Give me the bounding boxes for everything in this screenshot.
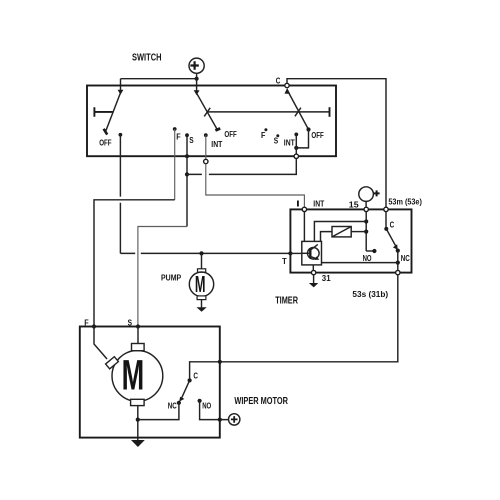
wire emitter to NC junction <box>322 262 398 264</box>
wire NC down to 53s <box>397 251 399 271</box>
relay coil K1 <box>332 227 351 237</box>
node INT3 junction <box>294 146 298 150</box>
node 15 branch coil <box>364 230 368 234</box>
svg-text:M: M <box>195 271 206 297</box>
wire INT2 down to connector <box>205 135 207 159</box>
switch S1 bank3 pivot arrow <box>285 88 291 94</box>
node pump junction <box>199 251 203 255</box>
wire coil left lead <box>321 232 333 242</box>
switch rail right plate <box>329 107 331 117</box>
svg-text:F: F <box>176 131 180 141</box>
svg-text:C: C <box>193 371 198 381</box>
wire motor F lead <box>94 327 107 360</box>
node S3 dot <box>276 134 279 137</box>
wire S2 to INT3 (gap at INT2 crossing) <box>187 159 296 175</box>
wiper motor M1 <box>106 344 163 406</box>
relay lever arrowhead <box>393 244 398 249</box>
svg-text:I: I <box>296 198 300 208</box>
wire to bank1 pivot <box>120 79 122 93</box>
pump motor P1 <box>189 269 213 308</box>
ground 31 <box>309 275 318 288</box>
wire branch A to transistor <box>314 222 366 242</box>
node relay C <box>384 227 388 231</box>
switch S1 bank3 crossing tick <box>295 108 301 117</box>
node F2 post <box>173 127 177 131</box>
svg-text:S: S <box>128 317 133 327</box>
node INT3 connector circle <box>294 154 298 158</box>
svg-text:53m (53e): 53m (53e) <box>388 197 422 207</box>
node NO box edge junction <box>218 418 222 422</box>
wire OFF1 down (gap at F crossing) <box>119 135 121 254</box>
wire 53m internal down <box>385 212 387 229</box>
node OFF1 post <box>119 133 123 137</box>
svg-text:INT: INT <box>313 198 325 208</box>
svg-text:NO: NO <box>363 253 372 263</box>
switch S1 bank2 lever tip tick <box>215 128 220 130</box>
svg-text:C: C <box>276 75 281 85</box>
switch S1 bank3 lever <box>287 90 308 130</box>
node S2 lower junction <box>185 172 189 176</box>
svg-text:F: F <box>84 317 88 327</box>
node supply junction <box>195 77 199 81</box>
svg-text:NC: NC <box>401 253 410 263</box>
wire C to 53m: up right down <box>287 79 386 208</box>
node motor box right edge junction <box>218 360 222 364</box>
node timer terminal 53s <box>396 270 400 274</box>
wire T lead <box>290 252 301 254</box>
node C circle on switch box top <box>285 83 289 87</box>
svg-text:INT: INT <box>211 139 223 149</box>
park switch lever <box>182 380 190 398</box>
node NC emitter junction <box>396 261 400 265</box>
node park NO <box>198 399 202 403</box>
node timer terminal 15 <box>364 207 368 211</box>
relay NO stub <box>366 250 374 252</box>
battery plus supply B1 <box>189 58 204 79</box>
wire bank3 lever to INT3 <box>296 130 308 148</box>
wire timer I internal <box>303 212 305 242</box>
node motor S <box>136 324 140 328</box>
switch rail bank2-bank3 <box>207 111 330 113</box>
svg-text:NC: NC <box>168 400 177 410</box>
svg-text:OFF: OFF <box>311 130 323 140</box>
svg-text:15: 15 <box>349 200 359 210</box>
switch S1 bank2 pivot arrow <box>194 90 200 95</box>
ground pump <box>197 307 207 312</box>
node timer terminal 31 <box>311 270 315 274</box>
wire INT3 post down <box>295 134 297 154</box>
wire park NC to motor minus <box>138 403 179 420</box>
node timer terminal I <box>302 207 306 211</box>
wire timer 15 internal down <box>365 212 367 251</box>
wire S2 post down <box>186 135 188 226</box>
switch S1 bank2 lever <box>197 93 218 130</box>
svg-text:SWITCH: SWITCH <box>132 52 162 64</box>
timer box <box>290 209 411 272</box>
svg-text:31: 31 <box>322 273 331 283</box>
node bank3 lever tip <box>306 127 310 131</box>
node S2 post <box>185 133 189 137</box>
svg-text:S: S <box>189 135 194 145</box>
battery plus terminal at motor <box>229 414 240 425</box>
wire to bank2 pivot <box>196 79 198 94</box>
wire 53s down and to motor box <box>190 275 398 381</box>
pump feed wire <box>201 253 203 268</box>
ground motor <box>131 440 145 447</box>
node timer T edge junction <box>288 251 292 255</box>
switch S1 bank1 pivot arrow <box>118 90 124 95</box>
svg-text:PUMP: PUMP <box>161 273 181 283</box>
wire transistor to 31 <box>312 265 314 271</box>
wire F to motor: left and down <box>94 200 175 327</box>
relay lever <box>386 229 396 246</box>
svg-text:C: C <box>390 219 395 229</box>
svg-text:OFF: OFF <box>99 137 111 147</box>
svg-text:F: F <box>261 130 265 140</box>
wire supply feed horizontal <box>121 78 197 80</box>
svg-text:53s (31b): 53s (31b) <box>352 289 388 299</box>
switch box <box>87 86 336 157</box>
transistor Q1 symbol <box>302 244 320 260</box>
switch S1 bank1 lever <box>106 93 121 132</box>
svg-text:OFF: OFF <box>224 129 236 139</box>
transistor Q1 box <box>302 241 322 265</box>
wire OFF1 horizontal to timer T (gap at S-wire crossing) <box>120 252 290 254</box>
node S2 on box edge <box>185 154 189 158</box>
wire coil right lead <box>351 231 366 233</box>
node INT3 post <box>294 133 298 137</box>
wire S to motor <box>138 227 187 327</box>
node 15 branch A <box>364 219 368 223</box>
svg-text:M: M <box>122 352 145 399</box>
wire park NO to plus terminal <box>200 401 229 420</box>
svg-text:TIMER: TIMER <box>275 296 298 307</box>
switch S1 bank1 lever tip tick <box>104 129 108 135</box>
svg-text:INT: INT <box>284 137 296 147</box>
wire INT2 to timer I <box>206 164 305 208</box>
battery plus supply B2 at 15 <box>359 187 380 207</box>
wiper motor box <box>80 327 220 438</box>
svg-text:NO: NO <box>202 400 211 410</box>
node relay NO dot <box>372 249 376 253</box>
node park NC <box>177 401 181 405</box>
node INT2 connector circle <box>204 159 208 163</box>
node motor F <box>92 324 96 328</box>
node park C <box>188 378 192 382</box>
wire motor S lead <box>137 327 139 344</box>
svg-text:WIPER MOTOR: WIPER MOTOR <box>234 396 288 407</box>
wire F2 post down <box>174 129 176 200</box>
svg-text:T: T <box>282 256 287 266</box>
wire motor minus down <box>137 406 139 441</box>
node timer terminal 53m <box>384 207 388 211</box>
park lever arrowhead <box>179 397 184 402</box>
node relay NC <box>396 249 400 253</box>
node F3 dot <box>264 128 267 131</box>
node motor minus junction <box>136 418 140 422</box>
switch S1 bank1 fixed contact plate <box>94 107 112 117</box>
node INT2 post <box>204 133 208 137</box>
switch S1 bank2 crossing tick <box>204 108 210 117</box>
